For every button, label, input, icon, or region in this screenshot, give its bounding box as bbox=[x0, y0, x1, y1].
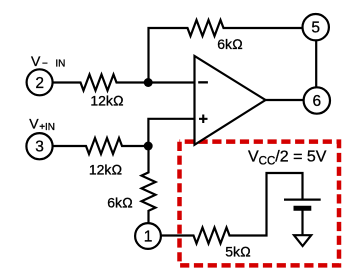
svg-text:12kΩ: 12kΩ bbox=[89, 162, 123, 178]
svg-text:2: 2 bbox=[35, 75, 44, 92]
svg-text:5: 5 bbox=[311, 20, 320, 37]
svg-text:12kΩ: 12kΩ bbox=[90, 93, 124, 109]
svg-text:−: − bbox=[42, 59, 48, 70]
svg-text:5kΩ: 5kΩ bbox=[225, 244, 251, 260]
svg-text:V: V bbox=[31, 53, 41, 69]
svg-text:6kΩ: 6kΩ bbox=[217, 36, 243, 52]
svg-text:IN: IN bbox=[55, 59, 65, 70]
svg-text:V: V bbox=[29, 116, 39, 132]
svg-text:1: 1 bbox=[144, 229, 153, 246]
svg-text:6: 6 bbox=[312, 93, 321, 110]
svg-text:6kΩ: 6kΩ bbox=[107, 195, 133, 211]
svg-text:3: 3 bbox=[35, 139, 44, 156]
svg-text:+IN: +IN bbox=[39, 122, 55, 133]
